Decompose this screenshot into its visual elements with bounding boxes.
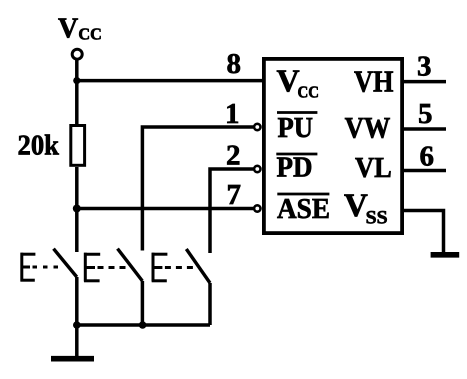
node junction VCC	[73, 77, 80, 84]
wire bottom bus	[77, 323, 210, 327]
switch S1 (pushbutton E) actuator	[21, 253, 65, 282]
wire pin 2 to switch S3	[210, 169, 253, 253]
svg-text:3: 3	[417, 51, 432, 83]
wire resistor to ASE node	[75, 167, 79, 209]
ground symbol left	[51, 356, 94, 362]
svg-text:VL: VL	[355, 153, 392, 184]
wire ASE node down to switch S1	[75, 209, 79, 253]
wire switch S3 bottom	[208, 283, 212, 325]
wire switch S1 bottom	[75, 277, 79, 325]
svg-text:1: 1	[225, 98, 240, 130]
svg-text:V: V	[344, 188, 368, 224]
svg-text:CC: CC	[298, 83, 320, 102]
switch S3 arm	[186, 249, 210, 283]
wire pin 5	[404, 127, 446, 131]
svg-text:PD: PD	[277, 152, 313, 184]
wire ground stub left	[75, 325, 79, 356]
wire VCC node to pin 8	[77, 79, 264, 83]
terminal VCC	[72, 49, 82, 59]
overline ASE	[277, 193, 329, 196]
svg-text:VW: VW	[345, 112, 391, 145]
node junction bottom mid	[139, 321, 147, 329]
node junction ASE	[73, 205, 81, 213]
switch S3 (pushbutton E) actuator	[152, 253, 196, 282]
ground symbol right	[431, 252, 460, 258]
pin bubble pin1 PU	[254, 124, 260, 130]
svg-text:VH: VH	[354, 64, 394, 99]
resistor R 20k	[71, 126, 85, 166]
svg-text:5: 5	[418, 98, 433, 130]
IC U1 body	[264, 59, 402, 233]
switch S1 arm	[54, 249, 77, 277]
wire ASE node to pin 7	[77, 207, 254, 211]
node junction bottom left	[73, 321, 81, 329]
wire pin 3	[404, 80, 446, 84]
svg-text:ASE: ASE	[277, 194, 330, 225]
pin bubble pin7 ASE	[254, 205, 260, 211]
svg-text:V: V	[58, 13, 78, 44]
svg-text:SS: SS	[366, 208, 388, 229]
wire pin 6	[404, 169, 446, 173]
svg-text:7: 7	[227, 179, 242, 211]
svg-text:8: 8	[227, 48, 242, 80]
overline PU	[277, 111, 317, 114]
svg-text:20k: 20k	[18, 131, 60, 162]
switch S2 (pushbutton E) actuator	[84, 253, 129, 282]
switch S2 arm	[118, 249, 143, 281]
svg-text:CC: CC	[78, 25, 102, 44]
wire VSS to ground	[404, 211, 444, 253]
wire switch S2 bottom	[141, 281, 145, 325]
wire VCC node down to resistor	[75, 81, 79, 125]
svg-text:2: 2	[226, 139, 241, 171]
svg-text:6: 6	[420, 141, 435, 173]
wire pin 1 to switch S2	[142, 127, 253, 251]
wire Vcc terminal stub	[75, 60, 79, 81]
pin bubble pin2 PD	[254, 166, 260, 172]
svg-text:PU: PU	[278, 112, 314, 144]
overline PD	[276, 153, 317, 156]
svg-text:V: V	[277, 63, 300, 99]
